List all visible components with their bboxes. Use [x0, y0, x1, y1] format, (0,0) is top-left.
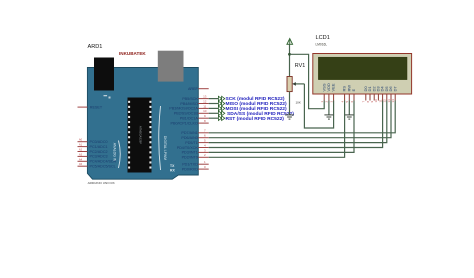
reference LCD1 — [316, 35, 330, 41]
svg-text:PB0/ICP1/CLKO: PB0/ICP1/CLKO — [171, 121, 198, 125]
LCD pin 6 E — [350, 89, 356, 103]
net label SDA/SS — [227, 111, 294, 117]
svg-text:A3: A3 — [79, 152, 83, 156]
bidirectional terminal arrow SCK — [218, 96, 224, 101]
LCD pin 9 D2 — [370, 86, 376, 103]
svg-text:11: 11 — [203, 104, 206, 108]
wire PD6 to LCD D6 — [209, 101, 391, 138]
svg-text:10: 10 — [203, 109, 207, 113]
pin 12 PB4/MISO of ARD1 — [180, 99, 208, 105]
wire PD2 to LCD RS — [209, 101, 345, 158]
svg-text:A1: A1 — [79, 143, 83, 147]
pin 11 PB3/MOSI/OC2A of ARD1 — [169, 104, 208, 110]
svg-text:PB4/MISO: PB4/MISO — [180, 102, 198, 106]
ground under LCD RW pin — [345, 101, 354, 120]
svg-text:PD6/AIN0: PD6/AIN0 — [181, 136, 197, 140]
svg-text:PC0/ADC0: PC0/ADC0 — [90, 140, 108, 144]
power jack (gray) on ARD1 — [158, 51, 184, 82]
svg-text:RX: RX — [170, 169, 175, 173]
LCD pin 14 D7 — [391, 86, 397, 103]
value LM016L — [316, 43, 328, 47]
ground under LCD VDD pin — [324, 101, 333, 120]
LCD pin 7 D0 — [362, 86, 368, 103]
LCD pin 12 D5 — [383, 86, 389, 103]
LCD pin 5 RW — [345, 85, 351, 103]
svg-text:VEE: VEE — [331, 83, 336, 91]
svg-text:INKUBATEK: INKUBATEK — [119, 51, 146, 56]
svg-text:PC1/ADC1: PC1/ADC1 — [90, 145, 108, 149]
bidirectional terminal arrow MOSI — [218, 106, 224, 111]
DIGITAL PWM silkscreen label and bracket — [159, 106, 167, 170]
pin A5 PC5/ADC5/SCL of ARD1 — [78, 162, 116, 168]
svg-text:RST (modul RFID RC522): RST (modul RFID RC522) — [226, 116, 285, 122]
LCD pin 8 D1 — [366, 86, 372, 103]
wire pin to SCK terminal — [209, 98, 219, 100]
pin A1 PC1/ADC1 of ARD1 — [78, 143, 108, 149]
pin 0 PD0/RXD of ARD1 — [182, 165, 209, 171]
svg-text:10K: 10K — [296, 100, 301, 104]
svg-text:RV1: RV1 — [295, 63, 305, 69]
net label SCK — [226, 96, 285, 102]
ARDUINO UNO R3 label — [88, 181, 115, 185]
svg-text:PB2/SS/OC1B: PB2/SS/OC1B — [174, 112, 199, 116]
USB connector (black) on ARD1 — [94, 58, 114, 91]
ground under RV1 — [285, 92, 294, 120]
net label MOSI — [226, 106, 288, 112]
value 10K — [296, 100, 301, 104]
pin 13 PB5/SCK of ARD1 — [182, 95, 208, 101]
AREF pin of ARD1 — [188, 87, 209, 91]
wire RV1 wiper to LCD VEE pin — [304, 84, 333, 128]
arduino board ARD1 body — [87, 68, 198, 180]
potentiometer RV1 body — [287, 77, 292, 92]
svg-text:PD2/INT0: PD2/INT0 — [182, 156, 198, 160]
svg-text:PC3/ADC3: PC3/ADC3 — [90, 155, 108, 159]
pin A2 PC2/ADC2 of ARD1 — [78, 148, 108, 154]
svg-text:ATMEGA328P: ATMEGA328P — [139, 126, 143, 144]
pin 9 PB1/OC1A of ARD1 — [180, 114, 209, 120]
bidirectional terminal arrow SDA/SS — [218, 111, 224, 116]
pin 6 PD6/AIN0 of ARD1 — [181, 134, 208, 140]
pin 2 PD2/INT0 of ARD1 — [182, 153, 209, 159]
svg-text:LM016L: LM016L — [316, 43, 328, 47]
wire PD3 to LCD E — [209, 101, 354, 153]
RESET pin of ARD1 — [78, 105, 103, 109]
svg-text:DIGITAL I-PWM: DIGITAL I-PWM — [163, 136, 167, 160]
LCD pin 11 D4 — [378, 86, 384, 103]
LCD screen — [318, 57, 407, 79]
pin A4 PC4/ADC4/SDA of ARD1 — [78, 157, 117, 163]
svg-text:A4: A4 — [79, 157, 83, 161]
svg-text:PC2/ADC2: PC2/ADC2 — [90, 150, 108, 154]
svg-text:PB1/OC1A: PB1/OC1A — [180, 117, 199, 121]
pin 4 PD4/T0/XCK of ARD1 — [177, 143, 209, 149]
svg-text:PC4/ADC4/SDA: PC4/ADC4/SDA — [90, 160, 117, 164]
junction node power/VSS branch — [288, 53, 291, 56]
svg-text:A0: A0 — [79, 138, 83, 142]
ANALOG IN silkscreen label and bracket — [113, 141, 121, 169]
wire pin to RST terminal — [209, 117, 219, 119]
bidirectional terminal arrow RST — [218, 116, 224, 121]
net label MISO — [226, 101, 288, 107]
wire PD7 to LCD D7 — [209, 101, 396, 133]
wire power terminal down to RV1 top — [289, 44, 291, 76]
svg-text:RESET: RESET — [90, 105, 103, 109]
svg-text:D7: D7 — [392, 86, 397, 92]
svg-text:ARDUINO UNO R3: ARDUINO UNO R3 — [88, 181, 115, 185]
pin A3 PC3/ADC3 of ARD1 — [78, 152, 108, 158]
LCD pin 4 RS — [340, 86, 346, 103]
svg-text:LCD1: LCD1 — [316, 35, 330, 41]
INKUBATEK logo text — [119, 51, 146, 56]
svg-text:PD3/INT1: PD3/INT1 — [182, 151, 198, 155]
svg-text:PB3/MOSI/OC2A: PB3/MOSI/OC2A — [169, 107, 198, 111]
pin 5 PD5/T1 of ARD1 — [185, 139, 208, 145]
LCD pin 3 VEE — [329, 83, 335, 102]
svg-text:A5: A5 — [79, 162, 83, 166]
board silkscreen marks — [104, 95, 111, 99]
wire pin to MOSI terminal — [209, 107, 219, 109]
svg-text:PD5/T1: PD5/T1 — [185, 141, 198, 145]
svg-text:E: E — [351, 89, 356, 92]
svg-text:PD0/RXD: PD0/RXD — [182, 167, 198, 171]
LCD pin 13 D6 — [387, 86, 393, 103]
svg-text:PD1/TXD: PD1/TXD — [182, 163, 198, 167]
net label RST — [226, 116, 285, 122]
svg-text:ARD1: ARD1 — [88, 44, 103, 50]
svg-text:A2: A2 — [79, 148, 83, 152]
pin 1 PD1/TXD of ARD1 — [182, 160, 208, 166]
reference ARD1 — [88, 44, 103, 50]
LCD pin 1 VSS — [320, 83, 326, 102]
svg-text:PC5/ADC5/SCL: PC5/ADC5/SCL — [90, 165, 116, 169]
wire pin to SDA/SS terminal — [209, 112, 219, 114]
power terminal +5V — [287, 39, 293, 45]
svg-text:TX: TX — [170, 164, 175, 168]
RV1 wiper arrow — [292, 82, 304, 86]
bidirectional terminal arrow MISO — [218, 101, 224, 106]
svg-text:12: 12 — [203, 99, 207, 103]
svg-text:PD7/AIN1: PD7/AIN1 — [181, 131, 197, 135]
pin 10 PB2/SS/OC1B of ARD1 — [174, 109, 209, 115]
LCD pin 10 D3 — [374, 86, 380, 103]
svg-text:AREF: AREF — [188, 87, 199, 91]
pin 7 PD7/AIN1 of ARD1 — [181, 129, 208, 135]
microcontroller chip ATMEGA328P U1 — [128, 98, 152, 173]
TX RX silkscreen labels — [170, 164, 175, 173]
svg-text:PB5/SCK: PB5/SCK — [182, 97, 198, 101]
pin 3 PD3/INT1 of ARD1 — [182, 148, 209, 154]
wire pin to MISO terminal — [209, 103, 219, 105]
LCD LCD1 body — [313, 54, 412, 95]
LCD pin 2 VDD — [325, 83, 331, 103]
svg-text:13: 13 — [203, 95, 207, 99]
reference RV1 — [295, 63, 305, 69]
pin 8 PB0/ICP1/CLKO of ARD1 — [171, 119, 209, 125]
wire junction to LCD VSS pin — [290, 54, 325, 108]
pin A0 PC0/ADC0 of ARD1 — [78, 138, 108, 144]
wire PD5 to LCD D5 — [209, 101, 387, 143]
svg-text:PD4/T0/XCK: PD4/T0/XCK — [177, 146, 199, 150]
wire PD4 to LCD D4 — [209, 101, 383, 148]
